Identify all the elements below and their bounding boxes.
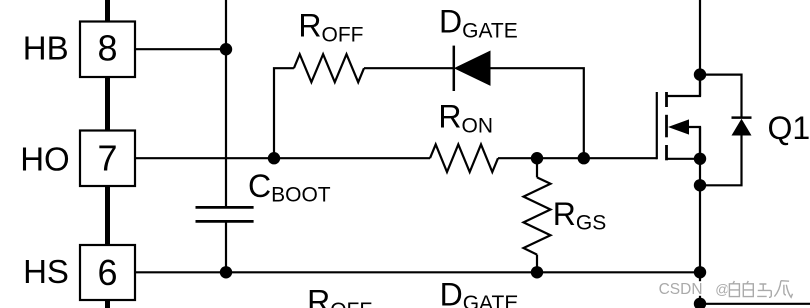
wire source vertical down bbox=[699, 127, 701, 308]
svg-text:HS: HS bbox=[23, 253, 69, 290]
wire ROFF branch left riser bbox=[274, 68, 294, 158]
svg-text:6: 6 bbox=[97, 252, 117, 293]
resistor RGS bbox=[524, 158, 551, 272]
resistor RON bbox=[430, 144, 498, 172]
wire HB row bbox=[135, 48, 226, 50]
pin 7 box bbox=[80, 131, 135, 187]
svg-text:@: @ bbox=[715, 281, 729, 297]
diode DGATE bbox=[454, 46, 490, 91]
node DGATE return junction bbox=[578, 152, 590, 164]
node source junction bbox=[694, 153, 706, 165]
svg-text:7: 7 bbox=[97, 137, 117, 178]
node HO/ROFF junction bbox=[268, 152, 280, 164]
svg-text:Q1: Q1 bbox=[768, 110, 810, 146]
watermark hanzi halo bbox=[729, 281, 792, 298]
node RGS bottom junction bbox=[531, 266, 543, 278]
Q1 body arrow bbox=[668, 119, 689, 134]
node HS/source junction bbox=[694, 266, 706, 278]
svg-text:HO: HO bbox=[20, 140, 69, 177]
wire HS row bbox=[135, 271, 700, 273]
node RGS top junction bbox=[531, 152, 543, 164]
svg-text:8: 8 bbox=[97, 27, 117, 68]
transistor Q1 (N-MOSFET) bbox=[657, 75, 700, 160]
node HB junction bbox=[220, 43, 232, 55]
wire HO row bbox=[135, 157, 430, 159]
pin 6 box bbox=[80, 245, 135, 300]
drain lead bbox=[667, 75, 701, 96]
wire RON output to gate bbox=[498, 157, 657, 159]
gate bar bbox=[656, 92, 658, 159]
body connection bbox=[689, 127, 700, 159]
body diode of Q1 bbox=[700, 75, 752, 186]
Q1 channel segments bbox=[665, 92, 668, 160]
node drain junction bbox=[694, 68, 706, 80]
node body diode bottom junction bbox=[694, 179, 706, 191]
svg-text:HB: HB bbox=[23, 30, 69, 67]
pin stub wire (IC edge, thick) bbox=[105, 0, 110, 308]
wire bottom right bbox=[700, 303, 810, 305]
source lead bbox=[667, 158, 701, 160]
node CBOOT bottom junction bbox=[220, 266, 232, 278]
wire CBOOT vertical bottom bbox=[225, 221, 227, 272]
pin 8 box bbox=[80, 22, 135, 78]
wire CBOOT vertical top bbox=[225, 0, 227, 207]
svg-text:CSDN: CSDN bbox=[659, 281, 703, 298]
wire drain vertical bbox=[699, 0, 701, 96]
capacitor CBOOT bbox=[196, 207, 254, 221]
wire diode to riser bbox=[490, 68, 584, 158]
wire ROFF to diode bbox=[364, 67, 454, 69]
node bottom wire junction bbox=[694, 298, 706, 308]
watermark hanzi 白白与瓜 bbox=[729, 281, 792, 298]
resistor ROFF bbox=[294, 54, 364, 82]
